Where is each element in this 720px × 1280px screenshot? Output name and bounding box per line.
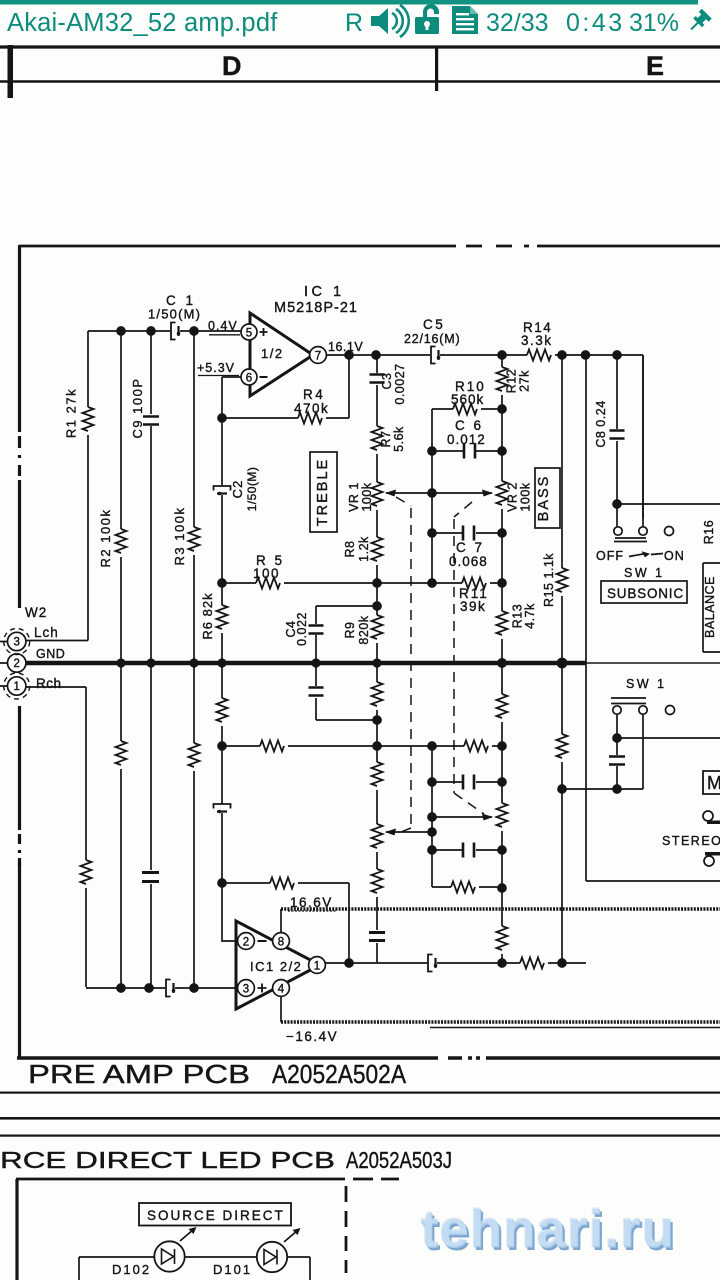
- svg-text:3.3k: 3.3k: [521, 333, 553, 348]
- connector W2 stubs: [0, 642, 7, 687]
- svg-text:+5.3V: +5.3V: [197, 361, 235, 375]
- op-amp IC1 2/2 section: [218, 878, 720, 1045]
- svg-text:2: 2: [243, 937, 249, 949]
- svg-text:R3 100k: R3 100k: [172, 507, 187, 566]
- svg-text:R15 1.1k: R15 1.1k: [542, 553, 556, 607]
- capacitor C6: [464, 444, 475, 459]
- op-amp U1b triangle: [236, 921, 320, 1009]
- wire lower C7 row y782: [432, 781, 502, 783]
- polar cap on +input row: [166, 980, 175, 997]
- wire mute out row y738: [617, 737, 720, 739]
- wire lower C4 column: [315, 663, 317, 720]
- svg-text:Akai-AM32_52 amp.pdf: Akai-AM32_52 amp.pdf: [7, 9, 278, 37]
- capacitor C4 lower mirror: [309, 688, 324, 696]
- capacitor C9: [143, 417, 159, 425]
- open padlock icon: [415, 4, 439, 34]
- pin 2 circle: [238, 933, 255, 950]
- wire subsonic out row y504: [617, 503, 720, 505]
- wire pin3 to Lch column: [26, 331, 88, 641]
- wire C4/R9 row y606: [316, 605, 377, 607]
- svg-text:C 7: C 7: [456, 540, 485, 555]
- capacitor C7: [463, 526, 474, 541]
- box top border: [19, 245, 720, 248]
- connector W2 pin 3: [8, 632, 26, 650]
- stereo contact upper: [703, 811, 713, 821]
- resistor R13 lower mirror: [497, 694, 508, 718]
- svg-text:D: D: [222, 51, 242, 81]
- svg-text:5: 5: [246, 328, 252, 340]
- svg-text:C5: C5: [423, 317, 445, 332]
- resistor R10 lower mirror: [451, 882, 475, 893]
- SW1 lower contact left: [613, 706, 621, 714]
- svg-text:4.7k: 4.7k: [523, 603, 537, 629]
- wire x222 lower column: [221, 663, 223, 883]
- svg-text:100k: 100k: [360, 482, 374, 511]
- LED D101 arrow: [284, 1230, 298, 1242]
- plus sign pin3: [258, 984, 267, 993]
- resistor R15 lower mirror: [557, 734, 568, 758]
- resistor R5 lower mirror: [260, 741, 284, 752]
- svg-text:C3: C3: [380, 373, 394, 390]
- capacitor C9 lower mirror: [142, 873, 159, 882]
- resistor R6 lower mirror: [217, 698, 228, 722]
- wire feedback R4 row y418: [222, 355, 349, 418]
- svg-text:2: 2: [13, 658, 19, 670]
- wire pin4 stem: [280, 997, 282, 1022]
- svg-text:R7: R7: [379, 431, 393, 448]
- led box top border: [16, 1178, 399, 1181]
- TREBLE box: [310, 452, 337, 532]
- wire treble column x377: [376, 355, 378, 963]
- pin 3 circle: [238, 980, 255, 997]
- node dot x222/y883: [218, 879, 226, 887]
- toggle arrow: [629, 554, 663, 557]
- resistor R4 lower mirror: [270, 878, 294, 889]
- svg-text:A2052A503J: A2052A503J: [346, 1147, 452, 1173]
- capacitor C8: [610, 431, 625, 439]
- progress strip top: [0, 0, 698, 5]
- svg-text:GND: GND: [36, 647, 65, 661]
- svg-text:820k: 820k: [357, 615, 371, 644]
- svg-text:TREBLE: TREBLE: [315, 458, 331, 526]
- svg-text:BASS: BASS: [536, 475, 552, 522]
- lower wiper wire VR2: [432, 816, 492, 818]
- GND bus dots: [116, 658, 567, 669]
- resistor R12 lower mirror: [497, 926, 508, 950]
- pin 5 circle: [241, 324, 257, 340]
- svg-text:R9: R9: [343, 622, 357, 639]
- svg-text:−16.4V: −16.4V: [286, 1029, 338, 1044]
- svg-text:0.022: 0.022: [295, 612, 309, 646]
- BASS box: [535, 468, 560, 528]
- divider D/E: [435, 46, 438, 91]
- svg-text:D101: D101: [213, 1262, 252, 1277]
- resistor R5: [256, 578, 280, 589]
- left edge tick: [8, 45, 14, 98]
- resistor R4: [298, 413, 322, 424]
- speaker icon: [371, 5, 409, 37]
- minus sign pin6: [260, 376, 268, 378]
- power rail +16.6V: [281, 907, 720, 910]
- wire lower loop x432: [431, 746, 433, 887]
- left column labels: [25, 293, 201, 691]
- svg-text:R16: R16: [702, 520, 716, 544]
- inner board outline sides: [79, 1257, 310, 1280]
- resistor R12: [497, 367, 508, 391]
- SW1 lower contact right: [639, 706, 647, 714]
- connector W2 dashed shell: [4, 629, 30, 700]
- power rail -16.4V: [281, 1020, 720, 1023]
- capacitor C5 polar: [431, 347, 440, 364]
- resistor R8: [372, 537, 383, 561]
- pin 1 circle: [309, 957, 326, 974]
- switch SW1 lower bar: [611, 698, 646, 704]
- svg-text:C2: C2: [230, 480, 245, 499]
- resistor R14 lower mirror: [520, 958, 544, 969]
- wire C7 row y533: [432, 532, 502, 534]
- resistor R7: [372, 426, 383, 450]
- wire vertical x121: [120, 331, 122, 988]
- svg-text:R6 82k: R6 82k: [200, 592, 215, 639]
- op-amp U1a triangle: [250, 313, 313, 396]
- resistor R10: [453, 404, 477, 415]
- resistor R1 lower mirror (Rch): [81, 860, 92, 884]
- resistor R11: [462, 578, 486, 589]
- SUBSONIC label box: [601, 581, 687, 603]
- capacitor C1: [171, 323, 180, 340]
- pushpin icon: [686, 9, 712, 35]
- svg-text:IC1 2/2: IC1 2/2: [250, 959, 302, 974]
- source direct LED board: [16, 1179, 399, 1280]
- wire R10 row y409: [432, 409, 502, 583]
- svg-text:22/16(M): 22/16(M): [404, 332, 460, 346]
- wire lower C4 row y720: [316, 719, 377, 721]
- LED D102: [154, 1241, 184, 1271]
- node dot R4/C2: [218, 414, 226, 422]
- svg-text:1/50(M): 1/50(M): [245, 467, 259, 512]
- switch SW1 subsonic bar: [614, 538, 647, 542]
- capacitor on SW1 stem: [609, 757, 625, 765]
- connector W2 pin 2: [8, 654, 26, 672]
- node dots row y746: [218, 742, 226, 750]
- svg-text:16.6V: 16.6V: [290, 895, 333, 910]
- capacitor C2 lower mirror: [214, 804, 231, 813]
- resistor R7 lower mirror: [372, 869, 383, 893]
- resistor R9: [372, 615, 383, 639]
- wire C4 column x316: [315, 606, 317, 663]
- wire op2 +input row y988: [86, 987, 238, 989]
- svg-text:1/50(M): 1/50(M): [148, 307, 201, 322]
- capacitor C2 polar: [214, 486, 231, 495]
- svg-text:W2: W2: [25, 605, 47, 620]
- rule 2: [0, 1117, 720, 1120]
- svg-text:SW 1: SW 1: [626, 677, 667, 691]
- resistor R9 lower mirror: [372, 682, 383, 706]
- header bottom rule: [0, 80, 720, 83]
- svg-text:M5218P-21: M5218P-21: [274, 300, 358, 316]
- wire lower tone row y746: [222, 745, 502, 747]
- wire SW1 lower left stem: [616, 715, 618, 790]
- rule 3: [0, 1135, 720, 1137]
- resistor R1: [83, 407, 94, 431]
- wire SW1 right stem: [642, 355, 644, 527]
- LED D102 arrow: [180, 1229, 194, 1241]
- wire pin8 stem: [280, 909, 282, 932]
- pin 4 circle: [273, 980, 290, 997]
- svg-text:BALANCE: BALANCE: [703, 576, 717, 638]
- svg-text:RCE DIRECT LED PCB: RCE DIRECT LED PCB: [0, 1147, 335, 1173]
- svg-text:1/2: 1/2: [261, 346, 284, 361]
- svg-text:0.068: 0.068: [449, 554, 488, 569]
- svg-text:SOURCE DIRECT: SOURCE DIRECT: [147, 1208, 285, 1223]
- header top rule: [0, 45, 720, 48]
- treble wiper wire: [386, 492, 492, 494]
- capacitor C4: [309, 626, 324, 634]
- node dots lower loop: [428, 778, 436, 786]
- rule 1: [0, 1092, 720, 1094]
- svg-text:3: 3: [243, 984, 249, 996]
- control box partition GND row: [586, 662, 720, 664]
- wire C6 row y451: [432, 450, 502, 452]
- minus sign pin2: [258, 940, 267, 942]
- svg-text:C 6: C 6: [455, 418, 484, 433]
- svg-text:100k: 100k: [519, 482, 533, 511]
- svg-text:STEREO: STEREO: [662, 834, 720, 848]
- inner board outline top: [79, 1256, 310, 1258]
- potentiometer VR2 lower mirror: [497, 803, 508, 827]
- led box left border: [15, 1179, 18, 1280]
- svg-text:32/33: 32/33: [486, 9, 549, 37]
- capacitor C3 lower mirror: [369, 933, 385, 941]
- pin 8 circle: [273, 933, 290, 950]
- watermark tehnari.ru: [420, 1199, 677, 1262]
- resistor R3: [189, 527, 200, 551]
- svg-text:1: 1: [314, 961, 320, 973]
- wire SW1 lower bottom row y789: [562, 715, 643, 790]
- wire R5/R11 row y583: [222, 582, 502, 584]
- svg-text:M: M: [707, 773, 720, 793]
- svg-text:OFF: OFF: [596, 549, 624, 563]
- treble tone stack column: [310, 355, 411, 963]
- svg-text:8: 8: [278, 937, 284, 949]
- svg-text:31%: 31%: [629, 9, 679, 37]
- wire vertical x151: [150, 331, 152, 988]
- SW1 subsonic open contact: [665, 527, 674, 536]
- main signal row: [327, 317, 644, 519]
- wire pin1 Rch: [26, 687, 86, 987]
- svg-text:VR 1: VR 1: [347, 482, 361, 512]
- wire pin6 column x222 down: [221, 377, 223, 663]
- capacitor C7 lower mirror: [463, 775, 474, 790]
- resistor R14: [527, 350, 551, 361]
- svg-text:IC 1: IC 1: [304, 284, 345, 300]
- svg-text:C8 0.24: C8 0.24: [594, 400, 608, 447]
- wire lower C6 row y850: [432, 849, 502, 851]
- M label box: [703, 771, 720, 794]
- main signal wire from pin7: [327, 354, 644, 356]
- svg-text:VR 2: VR 2: [506, 482, 520, 512]
- box bottom border: [17, 1056, 720, 1059]
- wire vertical x194: [193, 331, 195, 988]
- control box left border: [585, 355, 587, 881]
- pin 7 circle: [310, 347, 327, 364]
- svg-text:0:43: 0:43: [566, 9, 625, 37]
- node dots on input wire: [117, 327, 125, 335]
- SOURCE DIRECT label box: [139, 1203, 291, 1226]
- svg-text:R2 100k: R2 100k: [98, 509, 113, 568]
- svg-text:6: 6: [246, 373, 252, 385]
- wire R15 column x562: [561, 355, 563, 963]
- right switch/control section: [542, 355, 720, 963]
- svg-text:0.0027: 0.0027: [393, 363, 407, 404]
- dashed gang line VR1: [396, 497, 411, 834]
- wire input top (to pin 5): [88, 330, 241, 332]
- resistor R15: [557, 568, 568, 592]
- GND bus thick wire: [26, 661, 586, 666]
- connector W2 pin 1: [8, 677, 26, 695]
- svg-text:100: 100: [253, 566, 280, 581]
- resistor R3 lower mirror: [189, 743, 200, 767]
- svg-text:5.6k: 5.6k: [392, 426, 406, 452]
- led box right dashed border: [345, 1186, 348, 1273]
- wire pin2 from x222: [222, 883, 238, 941]
- potentiometer VR1 lower mirror: [372, 824, 383, 848]
- node dots output row: [345, 959, 353, 967]
- resistor R8 lower mirror: [372, 762, 383, 786]
- resistor R2: [116, 529, 127, 553]
- svg-text:27k: 27k: [518, 370, 532, 392]
- svg-text:560k: 560k: [451, 392, 484, 407]
- polar cap on output row: [428, 955, 437, 972]
- left input columns wiring: [0, 323, 586, 997]
- document icon: [452, 6, 478, 34]
- svg-text:4: 4: [278, 984, 285, 996]
- SW1 subsonic contact left: [614, 527, 622, 535]
- node dots row y583: [218, 579, 226, 587]
- svg-text:A2052A502A: A2052A502A: [272, 1061, 406, 1089]
- resistor R13: [497, 611, 508, 635]
- LED D101: [257, 1242, 287, 1272]
- op-amp IC1 1/2 section: [197, 284, 363, 663]
- node dots on +input row: [117, 984, 125, 992]
- bass tone stack section: [218, 355, 560, 963]
- SW1 subsonic contact right: [639, 527, 647, 535]
- plus sign pin5: [260, 328, 268, 336]
- svg-text:39k: 39k: [460, 599, 486, 614]
- svg-text:Rch: Rch: [36, 676, 62, 691]
- capacitor C3: [370, 375, 385, 383]
- svg-text:3: 3: [13, 637, 19, 649]
- node dots C6/C7 rows: [428, 447, 436, 455]
- wire lower R10 row y887: [432, 886, 502, 888]
- potentiometer VR2: [497, 481, 508, 505]
- svg-text:tehnari.ru: tehnari.ru: [420, 1199, 674, 1258]
- svg-text:Lch: Lch: [34, 625, 59, 640]
- node dots on main wire: [345, 351, 353, 359]
- resistor R6: [217, 605, 228, 629]
- svg-text:7: 7: [315, 351, 321, 363]
- resistor R11 lower mirror: [464, 741, 488, 752]
- svg-text:ON: ON: [664, 549, 685, 563]
- svg-text:SW 1: SW 1: [624, 566, 665, 580]
- lower channel mirror section: [214, 663, 508, 950]
- SW1 lower open contact: [666, 706, 675, 715]
- svg-text:0.012: 0.012: [447, 432, 486, 447]
- wire pin6 input: [222, 376, 241, 378]
- svg-text:SUBSONIC: SUBSONIC: [607, 586, 684, 601]
- box left border: [18, 245, 21, 1058]
- svg-text:D102: D102: [112, 1262, 151, 1277]
- capacitor C6 lower mirror: [463, 843, 474, 858]
- svg-text:R12: R12: [505, 369, 519, 393]
- resistor R2 lower mirror: [116, 741, 127, 765]
- stereo contact lower: [705, 852, 720, 856]
- bottom titles and rules: [0, 1061, 720, 1173]
- node dot row y606: [373, 602, 381, 610]
- BALANCE label box: [703, 563, 720, 652]
- wire R4 lower row y883: [222, 883, 349, 963]
- svg-text:R1 27k: R1 27k: [64, 388, 79, 438]
- svg-text:PRE AMP PCB: PRE AMP PCB: [28, 1061, 250, 1089]
- connector pin numbers: [13, 637, 19, 694]
- svg-text:1.2k: 1.2k: [357, 536, 371, 562]
- control box bottom: [586, 880, 720, 882]
- pin 6 circle: [241, 369, 257, 385]
- dashed gang line VR2: [454, 502, 484, 814]
- svg-text:0.4V: 0.4V: [208, 319, 238, 333]
- svg-text:1: 1: [13, 681, 19, 693]
- svg-text:E: E: [646, 51, 664, 81]
- wire bass column x502: [501, 355, 503, 963]
- svg-text:R8: R8: [343, 541, 357, 558]
- svg-text:470k: 470k: [294, 401, 329, 416]
- svg-text:R4: R4: [303, 387, 325, 402]
- left border dash-dot: [18, 436, 21, 866]
- svg-text:C9 100P: C9 100P: [130, 377, 145, 438]
- lower wiper wire VR1: [386, 831, 432, 833]
- svg-text:R: R: [345, 9, 363, 37]
- wire C8 column x617: [616, 355, 618, 527]
- wire output row y963: [326, 962, 587, 964]
- wire corner down right end: [642, 355, 644, 519]
- potentiometer VR1: [372, 482, 383, 506]
